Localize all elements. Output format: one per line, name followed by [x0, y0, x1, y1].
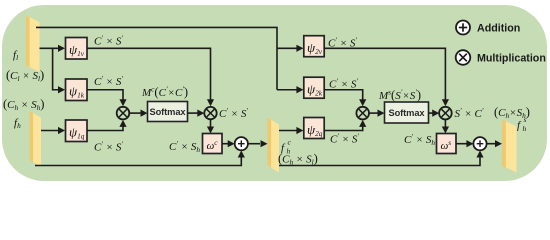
svg-text:Addition: Addition: [477, 23, 520, 35]
svg-text:Multiplication: Multiplication: [477, 53, 546, 65]
svg-text:C′ × S′: C′ × S′: [94, 74, 123, 88]
wire branch to psi2k: [277, 86, 303, 93]
wire f_l to psi1v: [40, 45, 66, 52]
svg-text:C′ × Sh: C′ × Sh: [169, 139, 200, 154]
wire branch to psi1k: [53, 48, 65, 93]
svg-text:Softmax: Softmax: [389, 108, 426, 118]
wire fc_h to psi2q: [279, 127, 303, 134]
multiply node 3: [356, 107, 369, 120]
feature bar fc_h: [268, 118, 280, 173]
wire branch to psi2v: [277, 45, 303, 52]
wire mult1 to softmax1: [129, 110, 148, 117]
wire f_h bottom to add1: [35, 151, 245, 166]
multiply node 4: [439, 107, 452, 120]
add node 1: [235, 137, 248, 150]
multiply node 2: [204, 107, 216, 119]
svg-text:C′ × S′: C′ × S′: [330, 132, 359, 146]
svg-text:Mc(C′×C′): Mc(C′×C′): [141, 85, 188, 100]
wire softmax1 to mult2: [188, 110, 205, 117]
wire mult3 to softmax2: [369, 110, 385, 117]
svg-text:C′ × S′: C′ × S′: [94, 140, 123, 154]
svg-text:Softmax: Softmax: [150, 107, 187, 117]
wire add2 to bar fs_h: [487, 140, 502, 147]
legend multiplication: [456, 50, 546, 65]
box psi1k: [66, 79, 88, 101]
multiply node 1: [117, 107, 130, 120]
wire add1 to bar fc_h: [248, 140, 268, 147]
svg-text:C′ × Sh: C′ × Sh: [404, 132, 435, 147]
wire psi1k out to mult1: [87, 90, 127, 107]
svg-text:C′ × S′: C′ × S′: [328, 36, 357, 50]
box psi2v: [304, 36, 324, 57]
box omega-c: [203, 134, 223, 154]
box psi2k: [304, 77, 324, 98]
box softmax2: [385, 102, 429, 123]
wire omega-c to add1: [222, 140, 235, 147]
box omega-s: [437, 134, 457, 154]
svg-text:S′ × C′: S′ × C′: [455, 106, 484, 120]
add node 2: [473, 137, 486, 150]
legend addition: [456, 21, 520, 35]
wire psi1q out to mult1: [87, 120, 127, 131]
box psi2q: [304, 118, 324, 139]
wire omega-s to add2: [456, 140, 473, 147]
wire softmax2 to mult4: [429, 110, 440, 117]
wire psi2q out to mult3: [324, 120, 366, 131]
feature bar f_l: [26, 16, 40, 73]
wire f_l top to psi2 column: [36, 27, 277, 89]
box psi1q: [66, 120, 88, 142]
svg-text:C′ × S′: C′ × S′: [219, 106, 248, 120]
svg-text:C′ × S′: C′ × S′: [329, 77, 358, 91]
wire mult2 down to omega-c: [207, 119, 214, 133]
box psi1v: [66, 38, 88, 60]
feature bar fs_h: [502, 120, 517, 173]
box softmax1: [148, 102, 188, 122]
wire psi2k out to mult3: [324, 90, 366, 107]
wire psi2v out to mult4: [324, 48, 449, 106]
background panel: [2, 5, 547, 181]
svg-text:C′ × S′: C′ × S′: [94, 34, 123, 48]
wire mult4 down to omega-s: [442, 119, 449, 133]
svg-text:Ms(S′×S′): Ms(S′×S′): [378, 88, 421, 103]
wire psi1v out to mult2: [87, 48, 214, 106]
wire fc_h bottom to add2: [279, 151, 484, 166]
feature bar f_h: [30, 111, 42, 167]
wire f_h to psi1q: [41, 127, 65, 134]
